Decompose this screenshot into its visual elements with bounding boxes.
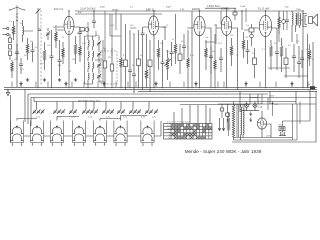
svg-text:5k: 5k — [62, 37, 64, 39]
resistor R10 — [145, 34, 148, 88]
capacitor C12 — [141, 27, 145, 90]
box Z3 — [148, 40, 152, 92]
svg-text:Mitt: Mitt — [168, 128, 171, 131]
wire fill horizontals — [23, 27, 308, 76]
wire IF loops — [85, 22, 104, 84]
wire mains route — [283, 104, 311, 140]
component value labels — [9, 21, 314, 73]
terminal TA arrows — [218, 118, 225, 131]
resistor R6 — [74, 36, 77, 64]
box Z6 — [253, 48, 257, 78]
svg-text:M(7x5861/3/6x1,6kc): M(7x5861/3/6x1,6kc) — [78, 100, 101, 103]
resistor R4 — [55, 25, 58, 48]
svg-text:25k: 25k — [214, 25, 217, 27]
svg-text:2200: 2200 — [270, 95, 274, 97]
capacitor C8 — [92, 10, 96, 28]
wire main HT bus — [4, 87, 317, 91]
svg-text:4000: 4000 — [100, 6, 106, 8]
label coil bank — [78, 100, 101, 103]
svg-text:3-30: 3-30 — [71, 117, 75, 119]
resistor R20 — [227, 112, 230, 136]
label EBF11 — [146, 7, 155, 11]
ground g3 — [58, 78, 61, 82]
wire v3 feed — [191, 11, 193, 88]
svg-text:1M: 1M — [306, 49, 309, 51]
mains plug — [279, 131, 286, 136]
resistor R11 — [157, 40, 160, 70]
svg-text:5k: 5k — [172, 39, 174, 41]
fuse Si — [279, 126, 285, 130]
resistor R1 — [12, 21, 15, 40]
svg-text:10k: 10k — [68, 71, 71, 73]
wire top screen bus — [75, 8, 236, 14]
resistor R23 — [278, 11, 281, 34]
resistor R21 — [11, 60, 14, 78]
tube V1 ECH11 — [64, 16, 74, 34]
label top 800 — [78, 12, 82, 14]
coil set L7 — [93, 121, 106, 146]
resistor R18 — [270, 40, 273, 70]
resistor R15 — [214, 34, 217, 88]
capacitor C1 — [9, 34, 12, 60]
capacitor C10 — [128, 30, 132, 88]
label ECH11 — [54, 7, 63, 11]
dial lamp La1 — [245, 102, 249, 111]
capacitor C7 — [78, 30, 82, 42]
power transformer T1 — [232, 102, 244, 141]
box Z4 — [178, 44, 182, 74]
svg-text:Lang: Lang — [167, 132, 171, 134]
svg-text:2M: 2M — [280, 55, 283, 57]
capacitor C20 — [292, 44, 296, 72]
coil set L9 — [141, 121, 154, 146]
svg-text:1M: 1M — [53, 27, 56, 29]
IF transformer F1a — [88, 36, 94, 50]
junction 63V — [272, 103, 280, 106]
svg-text:Kurz: Kurz — [167, 126, 171, 128]
box Z5 — [233, 8, 237, 20]
capacitor C16 — [209, 46, 213, 74]
capacitor C24 — [285, 11, 289, 30]
tube V2 EBF11 — [149, 16, 159, 35]
label fuse — [279, 123, 283, 126]
svg-text:7000: 7000 — [296, 9, 302, 11]
wire bus drops — [12, 82, 308, 88]
svg-text:220V: 220V — [266, 135, 272, 137]
resistor R7 — [79, 42, 82, 62]
svg-text:0,1µF: 0,1µF — [240, 6, 246, 8]
svg-text:0,1µF 2x0,5µF: 0,1µF 2x0,5µF — [80, 8, 96, 11]
resistor R3 — [43, 42, 46, 70]
grid stopper box — [249, 24, 254, 46]
wire V1 pins — [57, 10, 80, 88]
speaker LS — [301, 14, 318, 27]
trimmer F1a — [97, 36, 101, 48]
resistor R16 — [230, 38, 233, 66]
capacitor C23 — [226, 104, 230, 122]
resistor R19 — [280, 38, 283, 72]
svg-text:3-30: 3-30 — [123, 117, 127, 119]
ground g1 — [26, 78, 29, 82]
choke L2 — [292, 11, 293, 42]
svg-text:Mende - Super 240 WDK - Jahr 1: Mende - Super 240 WDK - Jahr 1939 — [185, 149, 262, 154]
svg-text:30pF: 30pF — [166, 6, 172, 8]
capacitor C19 — [275, 42, 279, 70]
capacitor C15 — [182, 34, 186, 60]
resistor R2 — [26, 38, 29, 60]
IF transformer F2a — [88, 62, 94, 72]
capacitor C14 — [170, 42, 174, 66]
svg-text:3-30: 3-30 — [141, 117, 145, 119]
svg-text:3-30: 3-30 — [36, 117, 40, 119]
svg-text:3-30: 3-30 — [106, 117, 110, 119]
trimmer F2b — [97, 70, 101, 82]
svg-text:1M: 1M — [166, 51, 169, 53]
capacitor C21 — [297, 46, 301, 78]
svg-text:0,05µF 50cm: 0,05µF 50cm — [207, 6, 221, 8]
screened module dashed box — [101, 51, 117, 84]
svg-text:0,2A: 0,2A — [258, 105, 263, 108]
box Z1 — [124, 24, 128, 90]
label top row extra — [100, 6, 302, 11]
title text — [185, 149, 262, 154]
svg-text:10k: 10k — [205, 37, 208, 39]
wire V3 pins — [187, 10, 211, 88]
svg-text:3-30: 3-30 — [152, 117, 156, 119]
capacitor C2 — [15, 44, 19, 60]
wire right lower verticals — [240, 89, 310, 120]
junction small box — [80, 28, 89, 32]
coil set L6 — [72, 121, 85, 146]
trimmer Tr1 — [46, 28, 50, 40]
label EL11 — [258, 6, 270, 10]
lamp feed arrow 1 — [250, 112, 252, 116]
coil set L8 — [114, 121, 127, 146]
dial lamp La2 — [253, 102, 257, 111]
wire bus right extension — [250, 95, 316, 97]
gang link — [40, 10, 42, 86]
resistor R24 — [308, 44, 311, 66]
svg-text:ZF468: ZF468 — [112, 9, 119, 11]
svg-text:25k: 25k — [245, 37, 248, 39]
label switch top — [167, 121, 191, 123]
ground arrow main — [6, 89, 9, 96]
trimmer F2a — [97, 59, 101, 70]
wire bus step routing left — [8, 45, 31, 126]
wire module leads — [105, 48, 112, 88]
coil set L4 — [30, 121, 43, 146]
capacitor C5 — [50, 30, 54, 88]
resistor R5 — [62, 42, 65, 64]
resistor R14 — [205, 40, 208, 70]
wire V2 pins — [143, 10, 165, 88]
wire rectifier leads — [234, 111, 298, 140]
wire top anode bus — [75, 10, 302, 12]
label switch rows — [167, 126, 172, 140]
PSU enclosure — [218, 91, 316, 142]
box Z2 — [137, 30, 141, 88]
wire bus step routing mid — [28, 94, 296, 105]
tube V4 EBF11 — [221, 17, 231, 36]
wire V4 pins — [216, 8, 238, 91]
svg-text:ECH 11: ECH 11 — [54, 7, 63, 11]
wire trimmer feeds — [37, 102, 150, 110]
electrolytic C26 — [307, 84, 315, 89]
terminal earth jack — [3, 33, 9, 35]
wire coil bank links — [10, 95, 161, 143]
antenna A — [9, 5, 25, 45]
rectifier tube V6 — [257, 118, 266, 129]
IF transformer F2b — [88, 73, 94, 88]
ground comb row — [19, 82, 293, 86]
svg-text:3-30: 3-30 — [88, 117, 92, 119]
svg-text:3-30: 3-30 — [57, 117, 61, 119]
potentiometer P1 — [165, 50, 171, 80]
capacitor C11 — [132, 33, 136, 93]
svg-text:2M: 2M — [30, 41, 33, 43]
wire switch feeds — [174, 105, 210, 124]
resistor R8 in module — [103, 54, 107, 76]
capacitor C3 — [31, 42, 35, 62]
capacitor C17 — [219, 48, 223, 72]
box Z7 — [284, 48, 288, 78]
svg-text:EL 11 4µF: EL 11 4µF — [258, 6, 270, 10]
tuning capacitor C4 — [36, 8, 42, 88]
label trimmer values — [36, 117, 156, 119]
label top Abstimm — [80, 8, 96, 11]
label top 005 — [207, 6, 221, 8]
svg-text:25k: 25k — [108, 57, 111, 59]
svg-text:1 2 3 4 5 6 7 8 9 10 11 12: 1 2 3 4 5 6 7 8 9 10 11 12 — [167, 121, 191, 123]
label 220V — [266, 135, 272, 137]
output transformer T2 — [296, 13, 301, 33]
capacitor C6 — [58, 40, 62, 76]
tube V5 EL11 — [259, 15, 271, 36]
capacitor C9 in module — [110, 56, 114, 80]
trimmer bank — [33, 109, 159, 114]
ground g2 — [43, 78, 46, 82]
wave band switch S1 — [164, 124, 213, 140]
ground g4 — [74, 78, 77, 82]
resistor R22 — [220, 104, 224, 118]
coil L1 — [23, 20, 24, 42]
svg-text:EBF 11: EBF 11 — [221, 6, 230, 10]
IF transformer F1b — [88, 51, 94, 61]
capacitor C18 — [246, 40, 250, 64]
tube V3 EFM11 — [194, 16, 205, 36]
wire PSU drops — [262, 94, 300, 124]
svg-text:Sp: Sp — [168, 138, 170, 140]
wire right verticals mid — [241, 10, 313, 90]
resistor R12 — [174, 14, 177, 64]
resistor R9 — [120, 14, 123, 88]
label lamps — [258, 104, 263, 109]
svg-text:Netz: Netz — [279, 123, 283, 126]
label EFM11 — [192, 7, 201, 11]
coil set L3 — [10, 121, 23, 146]
resistor R17 — [242, 32, 245, 58]
lamp feed arrow 2 — [250, 118, 252, 122]
capacitor C22 — [19, 58, 23, 74]
wire fill verticals — [110, 8, 297, 44]
coil set L5 — [50, 121, 63, 146]
svg-text:5k: 5k — [312, 59, 314, 61]
capacitor C25 — [300, 50, 304, 68]
wire top risers — [105, 11, 279, 56]
label EBF11b — [221, 6, 230, 10]
svg-text:10k: 10k — [72, 59, 75, 61]
wire V5 pins — [253, 10, 277, 88]
resistor R13 — [187, 30, 190, 88]
terminal antenna jack — [3, 27, 9, 29]
capacitor C13 — [161, 40, 165, 88]
trimmer F1b — [97, 48, 101, 59]
svg-text:2M: 2M — [140, 55, 143, 57]
screen cap circle — [282, 11, 286, 30]
